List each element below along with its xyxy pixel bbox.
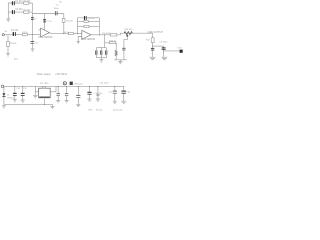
capacitor PSU x78.3: [76, 95, 80, 97]
capacitor C2 (branch2, electrolytic): [13, 10, 15, 14]
wire right rail top-left network down to input line: [31, 3, 33, 35]
svg-text:SW1 pwr: SW1 pwr: [74, 83, 83, 86]
capacitor C9 output (electrolytic dark): [162, 48, 166, 50]
wire PSU cap leg x89.5: [89, 86, 91, 98]
svg-text:R5: R5: [59, 2, 62, 4]
ground shunt cap: [31, 49, 35, 51]
ground PSU cap x22.7: [21, 100, 25, 102]
svg-text:1N4004: 1N4004: [7, 97, 15, 99]
svg-text:C6: C6: [56, 4, 60, 6]
svg-text:C16: C16: [126, 92, 131, 94]
capacitor PSU x58.2: [56, 94, 60, 96]
resistor R3 (series input): [22, 34, 27, 36]
node IN connector: [2, 34, 4, 36]
svg-text:C1 47u: C1 47u: [15, 1, 23, 3]
wire op-amp U1 upper input stub: [38, 29, 40, 31]
svg-text:R12: R12: [146, 40, 151, 42]
labels (tiny text smudges): [5, 1, 183, 112]
svg-text:IC1b NE5532: IC1b NE5532: [81, 39, 96, 41]
svg-text:R9 100R: R9 100R: [102, 33, 111, 35]
wire feedback top path: [78, 17, 100, 19]
resistor R2 (branch2): [24, 11, 29, 13]
wire shunt cap leg x32.3: [31, 35, 33, 49]
wire branch y46.1 to output cap: [153, 45, 164, 47]
ground PSU cap x114.8: [113, 101, 117, 103]
svg-text:C15: C15: [108, 92, 113, 94]
capacitor PSU x114.8: [113, 91, 117, 93]
wire feedback left vertical op-amp U2: [77, 18, 79, 34]
ground PSU cap x78.3: [76, 104, 80, 106]
wire feedback horizontal y13.5: [32, 13, 64, 15]
regulator U3 box: [39, 88, 51, 98]
resistor R9 output series: [110, 34, 116, 36]
capacitor C8 feedback (dark): [85, 16, 87, 20]
ground cluster2: [118, 62, 122, 64]
potentiometer wiper arrow: [126, 34, 128, 36]
wire PSU cap leg x22.7: [22, 86, 24, 99]
switch block on PSU rail: [70, 82, 73, 85]
capacitor cluster Cb: [101, 50, 103, 54]
wire interstage line: [49, 32, 81, 35]
wire drop x63.8 to interstage line: [63, 14, 65, 34]
wire cluster2 bottom rail: [114, 60, 127, 62]
wire left rail of top-left RC network: [7, 3, 9, 16]
svg-text:Rev-A: Rev-A: [96, 109, 102, 112]
ground output cap leg: [161, 57, 167, 60]
wire feedback right vertical op-amp U2: [98, 18, 100, 35]
svg-text:IN: IN: [5, 31, 8, 33]
resistor R1 (branch1): [24, 2, 29, 4]
resistor R6 interstage: [69, 33, 74, 35]
wire branch 2 top-left network: [8, 11, 32, 13]
capacitor PSU x22.7 (electrolytic dark): [21, 93, 25, 95]
wire PSU bottom rail: [4, 104, 53, 106]
wire branch 1 top-left network: [8, 2, 32, 4]
regulator dark bottom edge: [39, 96, 49, 98]
capacitor PSU x14.8 (electrolytic dark): [13, 93, 17, 95]
svg-text:C4 10u: C4 10u: [11, 30, 19, 32]
svg-text:R10 1k: R10 1k: [109, 40, 117, 42]
potentiometer VR1 zigzag: [124, 32, 132, 35]
wire regulator right pin: [50, 86, 56, 91]
svg-text:R1 750: R1 750: [24, 1, 32, 3]
capacitor C6 on y13.5 line: [55, 11, 57, 15]
svg-text:R4 47k: R4 47k: [10, 43, 18, 45]
wire PSU cap leg x78.3: [77, 86, 79, 104]
wire cap leg x123.9: [123, 47, 125, 59]
ground load leg: [150, 57, 156, 60]
wire output cap leg x163.6: [163, 46, 165, 57]
wire feedback lower path: [78, 25, 100, 27]
wire PSU cap leg x58.2: [57, 86, 59, 100]
svg-text:C8 10n: C8 10n: [88, 18, 96, 20]
ground PSU cap x97.9: [96, 99, 100, 101]
wire PSU cap leg x97.9: [97, 86, 99, 98]
svg-text:C14 100n: C14 100n: [100, 82, 110, 84]
wire regulator bottom pin: [44, 99, 46, 105]
svg-text:C11: C11: [23, 88, 27, 90]
ground PSU bottom x52.4: [50, 105, 54, 109]
wire load resistor leg x152.6: [152, 33, 154, 57]
svg-text:C7 1u: C7 1u: [46, 21, 52, 23]
capacitor PSU x97.9 (light): [96, 94, 99, 95]
lamp LED on PSU rail: [63, 82, 66, 85]
wire cluster top rail: [97, 47, 107, 49]
svg-text:C5: C5: [35, 42, 38, 44]
output connector J2: [180, 50, 183, 53]
svg-text:VR1 50k: VR1 50k: [124, 29, 133, 31]
wire drop to decoupling cluster x104.7: [104, 35, 106, 48]
wire regulator left pin and ground: [35, 86, 38, 95]
capacitor cluster Cc: [106, 50, 108, 54]
wire to output connector: [164, 50, 180, 52]
svg-text:P06: P06: [88, 110, 93, 112]
wire PSU cap leg x14.8: [14, 86, 16, 99]
ground input shunt resistor: [6, 54, 10, 56]
ground top-left network: [6, 16, 10, 21]
svg-text:Power supply: Power supply: [37, 73, 52, 76]
capacitor PSU x123.7 (electrolytic dark): [121, 91, 126, 93]
svg-text:gnd: gnd: [14, 59, 17, 61]
svg-text:C9 100u: C9 100u: [160, 42, 169, 44]
resistor R10 cluster branch: [109, 42, 115, 44]
wire input line: [4, 34, 40, 36]
wire PSU rail end cap leg x123.7: [123, 86, 125, 101]
svg-text:IC1a NE5532: IC1a NE5532: [39, 37, 54, 39]
ground PSU cap x58.2: [56, 101, 60, 103]
wire cluster cap legs: [97, 48, 107, 58]
capacitor PSU x66.6: [65, 94, 69, 96]
svg-text:C3: C3: [34, 19, 37, 21]
wire op-amp U2 lower input stub to ground: [78, 37, 82, 42]
svg-text:R3 1k: R3 1k: [22, 32, 28, 34]
ground PSU cap x66.6: [65, 101, 69, 103]
ground cluster: [99, 60, 103, 62]
ground PSU left: [2, 106, 6, 108]
svg-text:100n: 100n: [54, 8, 59, 10]
wire feedback middle path: [78, 20, 100, 22]
svg-text:OUT: OUT: [177, 48, 182, 50]
resistor R11 vertical zigzag x116.2: [115, 50, 117, 55]
wire cluster bottom rail: [97, 58, 107, 60]
diode D1 PSU (dark): [2, 93, 5, 96]
svg-text:R2 750: R2 750: [24, 10, 32, 12]
ground PSU cap x89.5: [88, 99, 92, 101]
svg-text:+15V 30mA: +15V 30mA: [55, 73, 68, 76]
wire output line of U2: [91, 33, 153, 35]
capacitor cluster Ca: [96, 50, 98, 54]
svg-text:R5 10k: R5 10k: [66, 20, 74, 22]
svg-text:C10: C10: [16, 88, 21, 90]
wire PSU top rail: [3, 85, 124, 87]
capacitor C4 input coupling (electrolytic): [13, 32, 15, 36]
capacitor Ce on load leg (dark): [151, 48, 154, 50]
resistor R4 (input shunt): [7, 41, 10, 46]
capacitor C3 (in right rail, electrolytic): [31, 18, 34, 20]
op-amp U2: [82, 30, 91, 39]
svg-text:LINE OUTPUT: LINE OUTPUT: [148, 32, 164, 34]
wire resistor leg x116.2: [115, 43, 117, 60]
resistor R12 load x152.6: [151, 38, 154, 43]
wire PSU cap leg x66.6: [66, 86, 68, 100]
capacitor C5 (input shunt): [30, 42, 34, 44]
op-amp U1: [41, 28, 50, 37]
capacitor C1 (branch1, electrolytic): [13, 1, 15, 5]
svg-text:IC2 7815: IC2 7815: [40, 83, 49, 85]
resistor R8 feedback low: [84, 25, 89, 27]
svg-text:C2 15u: C2 15u: [15, 9, 23, 11]
capacitor Cd x123.9: [122, 48, 125, 50]
wire PSU cap leg x114.8: [114, 86, 116, 101]
ground PSU cap x123.7: [121, 101, 126, 103]
wire pot wiper path: [124, 36, 127, 47]
resistor R5 on x63.8 drop: [62, 18, 65, 22]
svg-text:D1: D1: [7, 94, 10, 96]
capacitor C7 on x44.4 drop (electrolytic dark): [43, 20, 46, 22]
svg-text:C13 10u: C13 10u: [95, 93, 103, 95]
junction dots: [14, 33, 164, 105]
capacitor PSU x89.5 (dark): [87, 92, 91, 94]
svg-text:20-Jun-02: 20-Jun-02: [113, 110, 123, 112]
wire PSU left vertical: [3, 86, 5, 104]
svg-text:R6 1k: R6 1k: [64, 32, 70, 34]
wire input shunt resistor leg x8: [7, 35, 9, 54]
node PSU input connector: [1, 85, 4, 88]
regulator top tab: [42, 87, 45, 88]
ground op-amp U2 input: [77, 42, 80, 44]
resistor R7 feedback mid: [84, 20, 88, 22]
ground PSU cap x14.8: [13, 100, 17, 102]
wire drop x44.4 to op-amp top: [43, 14, 45, 31]
wire branch y42.8 with resistor: [105, 42, 117, 44]
